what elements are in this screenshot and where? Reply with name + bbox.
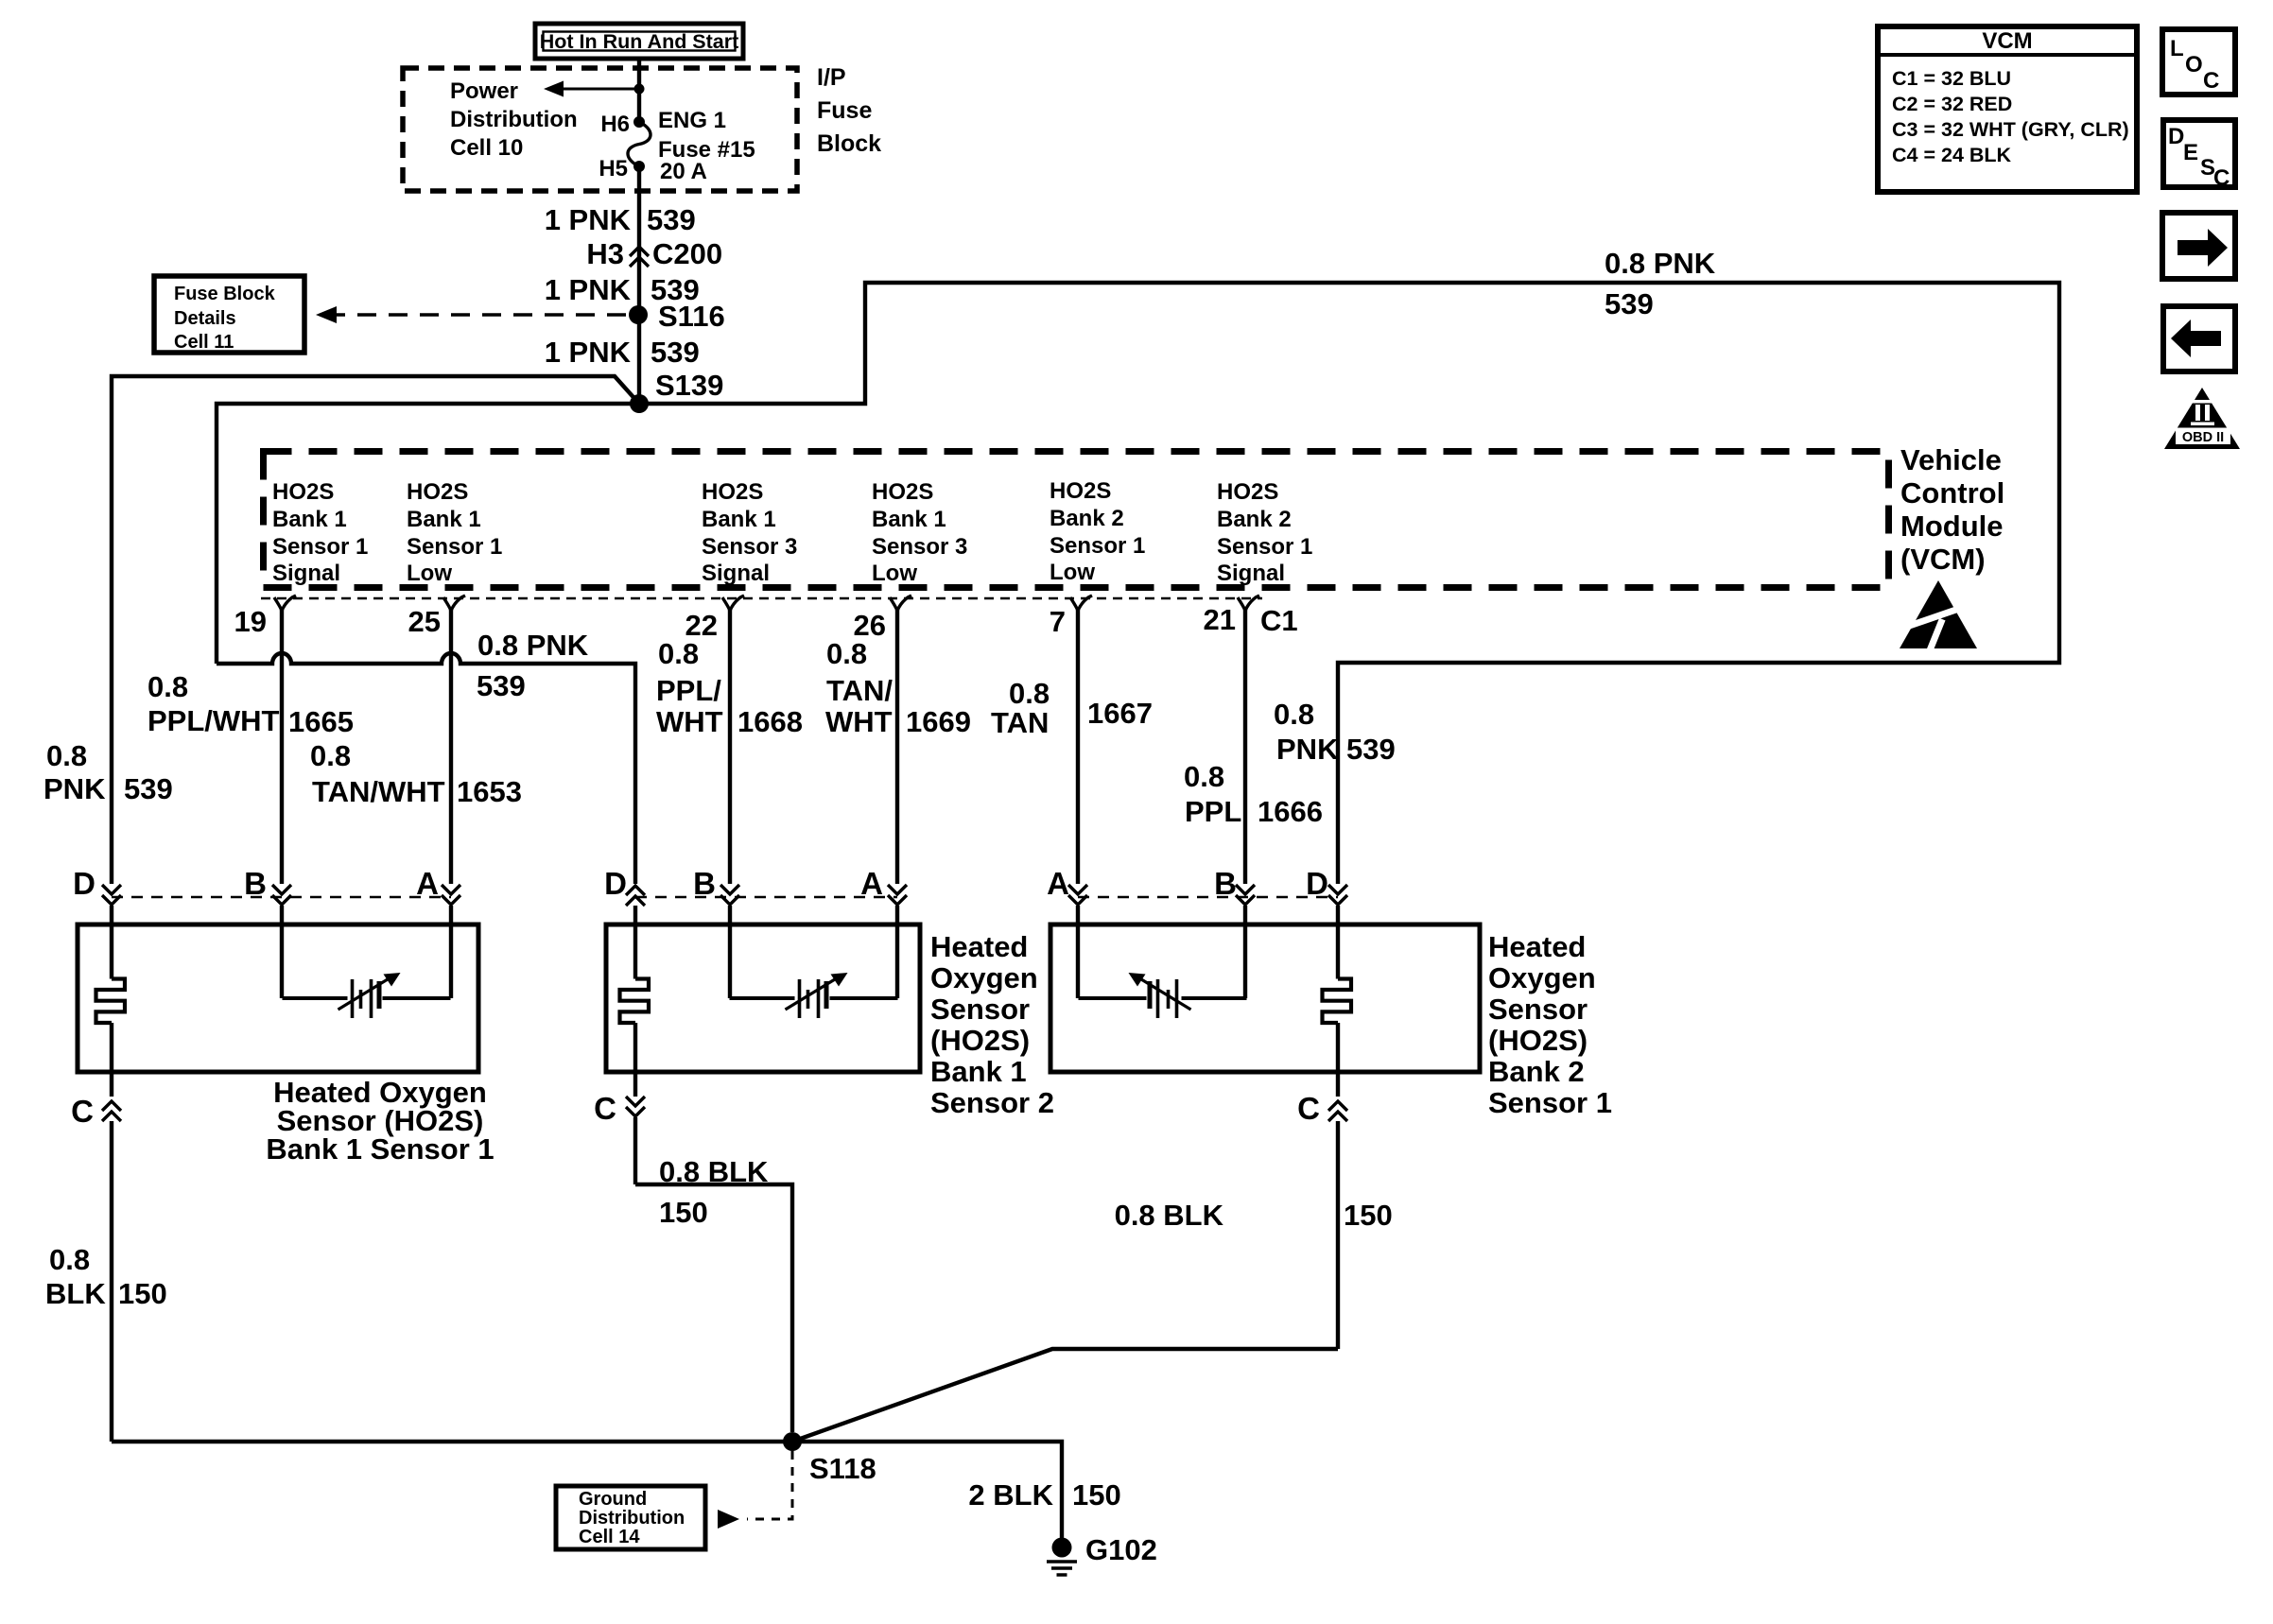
svg-text:1665: 1665 [288,705,354,738]
sense element sensor 3 [1076,906,1080,998]
heated oxygen sensor box 2 (Bank 1 Sensor 2) [606,924,920,1072]
wire: S139 to left branch (0.8 PNK to HO2S B1S1 heater) [112,376,639,884]
svg-text:Module: Module [1900,510,2004,543]
svg-text:HO2S: HO2S [1217,479,1278,505]
sensor 3 connector letters and arrows [1047,866,1347,905]
svg-text:TAN: TAN [991,706,1049,739]
wire: dashed reference to fuse block details [333,313,626,317]
svg-text:S118: S118 [809,1452,876,1485]
svg-text:Sensor 1: Sensor 1 [1217,534,1312,560]
svg-text:C: C [594,1091,616,1126]
svg-text:19: 19 [234,605,267,638]
svg-text:21: 21 [1204,603,1236,636]
svg-text:PPL/WHT: PPL/WHT [147,704,280,737]
svg-text:HO2S: HO2S [407,479,468,505]
svg-text:Bank 2: Bank 2 [1488,1055,1585,1088]
svg-text:Bank 1: Bank 1 [407,507,481,532]
svg-text:Bank 2: Bank 2 [1050,506,1124,531]
wire: S139 to middle branch [217,404,639,664]
svg-text:O: O [2185,52,2203,78]
svg-text:G102: G102 [1085,1533,1157,1566]
I/P fuse block dashed box [403,68,797,191]
node S118 [783,1432,802,1451]
svg-text:25: 25 [408,605,441,638]
svg-text:Hot In Run And Start: Hot In Run And Start [540,30,739,53]
svg-text:Distribution: Distribution [579,1508,685,1529]
svg-text:D: D [73,866,95,901]
svg-text:Ground: Ground [579,1489,647,1510]
svg-text:Cell 14: Cell 14 [579,1527,640,1547]
wire: ground bus [112,1442,1062,1539]
icon: LOC box [2162,29,2235,95]
heated oxygen sensor box 1 (Bank 1 Sensor 1) [78,924,478,1072]
label: Heated Oxygen Sensor (HO2S) Bank 2 Sensor 1 [1488,930,1612,1119]
sensor 1 connector letters and arrows [73,866,460,905]
svg-text:HO2S: HO2S [1050,478,1111,504]
heated oxygen sensor box 3 (Bank 2 Sensor 1) [1050,924,1480,1072]
svg-text:D: D [604,866,627,901]
svg-text:0.8: 0.8 [1274,698,1314,731]
pin 25 [408,596,465,884]
svg-text:1668: 1668 [737,705,803,738]
svg-text:Cell 11: Cell 11 [174,332,234,353]
label: I/P Fuse Block [817,64,881,157]
sensor 2 connector letters and arrows [604,866,907,906]
wire: arrow to power distribution [560,88,639,91]
svg-text:Fuse: Fuse [817,97,872,124]
svg-text:Sensor 2: Sensor 2 [930,1086,1054,1119]
fuse ENG 1 Fuse #15 20 A (H6/H5) [599,108,755,184]
svg-text:1 PNK: 1 PNK [545,273,632,306]
svg-text:150: 150 [1344,1199,1393,1232]
svg-text:20 A: 20 A [660,159,707,184]
svg-text:Bank 1: Bank 1 [872,507,946,532]
svg-text:539: 539 [1605,287,1654,320]
pin 22 [685,596,744,884]
svg-text:PPL/: PPL/ [656,674,721,707]
svg-text:Sensor: Sensor [1488,993,1588,1026]
svg-text:Details: Details [174,308,236,329]
svg-text:Bank 1: Bank 1 [702,507,776,532]
svg-text:1653: 1653 [457,775,522,808]
ground G102 [1047,1533,1157,1575]
svg-text:1 PNK: 1 PNK [545,336,632,369]
connector H3 C200 [586,237,722,270]
svg-text:Low: Low [872,561,917,586]
svg-text:Sensor 1: Sensor 1 [407,534,502,560]
node: tap junction [634,84,645,95]
svg-text:Low: Low [1050,560,1095,585]
svg-text:Sensor 3: Sensor 3 [872,534,967,560]
ESD sensitivity symbol [1891,580,1987,652]
svg-text:0.8: 0.8 [49,1243,90,1276]
icon: DESC box [2163,120,2235,191]
pin 21 C1 [1204,596,1298,884]
heater element sensor 2 [633,906,637,979]
wire: 1 PNK 539 from fuse to S139 [637,166,641,404]
svg-text:OBD II: OBD II [2182,430,2224,445]
svg-text:(VCM): (VCM) [1900,543,1986,576]
icon: forward arrow box [2162,213,2235,279]
svg-text:Cell 10: Cell 10 [450,135,523,161]
svg-text:150: 150 [1072,1478,1121,1512]
heater element sensor 1 [110,906,113,979]
svg-text:VCM: VCM [1982,28,2032,54]
svg-text:C3 = 32 WHT (GRY, CLR): C3 = 32 WHT (GRY, CLR) [1892,118,2129,141]
svg-text:Bank 1 Sensor 1: Bank 1 Sensor 1 [266,1132,494,1166]
svg-text:Fuse Block: Fuse Block [174,284,276,304]
label box: Hot In Run And Start [535,24,743,59]
svg-text:(HO2S): (HO2S) [1488,1024,1588,1057]
svg-text:S116: S116 [658,300,725,333]
svg-text:TAN/: TAN/ [826,674,893,707]
svg-text:Sensor 3: Sensor 3 [702,534,797,560]
svg-text:HO2S: HO2S [272,479,334,505]
svg-text:D: D [2168,124,2184,149]
svg-text:539: 539 [647,203,696,236]
svg-text:H6: H6 [600,112,630,137]
svg-text:H5: H5 [599,156,628,181]
svg-text:Heated: Heated [930,930,1028,963]
heater element sensor 3 [1336,906,1340,979]
svg-text:L: L [2170,36,2184,61]
svg-text:Signal: Signal [1217,561,1285,586]
svg-text:PNK: PNK [1276,733,1339,766]
svg-text:Heated: Heated [1488,930,1586,963]
svg-text:Oxygen: Oxygen [1488,961,1596,994]
sense element sensor 1 [280,906,284,998]
svg-text:Bank 1: Bank 1 [930,1055,1027,1088]
svg-text:0.8 PNK: 0.8 PNK [477,629,589,662]
svg-text:A: A [1047,866,1069,901]
svg-text:C: C [2213,165,2230,191]
pin 26 [854,596,911,884]
svg-text:Distribution: Distribution [450,107,578,132]
sense element sensor 2 [728,906,732,998]
svg-text:Power: Power [450,78,518,104]
svg-text:C: C [71,1094,94,1129]
svg-text:B: B [244,866,267,901]
label: Vehicle Control Module (VCM) [1900,443,2004,576]
svg-text:C4 = 24 BLK: C4 = 24 BLK [1892,144,2012,166]
VCM dashed connector box [264,452,1889,588]
connector face thin dashed line [261,597,1262,600]
svg-text:0.8 BLK: 0.8 BLK [659,1155,769,1188]
svg-text:0.8 PNK: 0.8 PNK [1605,247,1716,280]
svg-text:C: C [2203,68,2219,94]
svg-text:Bank 1: Bank 1 [272,507,347,532]
wire: 0.8 PNK horizontal with hops to middle sensor D [217,653,635,884]
svg-text:150: 150 [659,1196,708,1229]
svg-text:0.8: 0.8 [826,637,867,670]
svg-text:A: A [860,866,883,901]
wire: hot feed into fuse block [637,59,641,122]
svg-text:PNK: PNK [43,772,106,805]
pin labels inside VCM connector [272,478,1312,586]
svg-text:H3: H3 [586,237,624,270]
svg-text:C1: C1 [1260,604,1298,637]
wire: S139 right to VCM area and down right side to HO2S B2S1 heater [639,283,2059,884]
label: Power Distribution Cell 10 [450,78,578,161]
dashed reference to ground distribution [747,1451,792,1519]
svg-text:0.8: 0.8 [310,739,351,772]
icon: back arrow box [2163,306,2235,371]
pin 19 [234,596,296,884]
svg-text:C2 = 32 RED: C2 = 32 RED [1892,93,2012,115]
svg-text:2 BLK: 2 BLK [968,1478,1053,1512]
svg-text:WHT: WHT [656,705,723,738]
svg-text:C: C [1297,1091,1320,1126]
svg-text:Oxygen: Oxygen [930,961,1038,994]
svg-text:0.8: 0.8 [1009,677,1050,710]
svg-text:1666: 1666 [1258,795,1323,828]
label box: Fuse Block Details Cell 11 [154,276,304,353]
svg-text:BLK: BLK [45,1277,106,1310]
svg-text:WHT: WHT [825,705,893,738]
svg-text:Block: Block [817,130,881,157]
svg-text:E: E [2183,140,2198,165]
svg-text:A: A [416,866,439,901]
label: Heated Oxygen Sensor (HO2S) Bank 1 Sensor 2 [930,930,1054,1119]
svg-text:Sensor 1: Sensor 1 [272,534,368,560]
svg-text:Low: Low [407,561,452,586]
svg-text:PPL: PPL [1185,795,1241,828]
svg-text:0.8: 0.8 [1184,760,1224,793]
svg-text:S139: S139 [655,369,723,402]
svg-text:I/P: I/P [817,64,846,91]
label: Heated Oxygen Sensor (HO2S) Bank 1 Sensor 1 [266,1076,494,1166]
svg-text:Signal: Signal [272,561,340,586]
svg-text:Sensor: Sensor [930,993,1030,1026]
svg-text:C1 = 32 BLU: C1 = 32 BLU [1892,67,2011,90]
svg-text:Sensor 1: Sensor 1 [1050,533,1145,559]
svg-text:0.8: 0.8 [147,670,188,703]
VCM legend box [1878,26,2137,192]
svg-text:TAN/WHT: TAN/WHT [312,775,445,808]
svg-text:Bank 2: Bank 2 [1217,507,1292,532]
node S116 [629,305,648,324]
svg-text:0.8: 0.8 [46,739,87,772]
svg-text:0.8 BLK: 0.8 BLK [1115,1199,1224,1232]
svg-text:Signal: Signal [702,561,770,586]
svg-text:HO2S: HO2S [872,479,933,505]
svg-text:C200: C200 [652,237,722,270]
svg-text:B: B [693,866,716,901]
label box: Ground Distribution Cell 14 [556,1486,705,1549]
icon: OBD II triangle [2164,388,2240,449]
svg-text:ENG 1: ENG 1 [658,108,726,133]
svg-text:1669: 1669 [906,705,971,738]
svg-text:Vehicle: Vehicle [1900,443,2002,476]
svg-text:HO2S: HO2S [702,479,763,505]
svg-text:539: 539 [1346,733,1396,766]
wire: diagonal from S118 to sensor 3 ground [792,1349,1338,1442]
pin 7 [1050,596,1092,884]
svg-text:(HO2S): (HO2S) [930,1024,1030,1057]
svg-text:1667: 1667 [1087,697,1153,730]
svg-text:0.8: 0.8 [658,637,699,670]
svg-text:D: D [1306,866,1328,901]
svg-text:7: 7 [1050,605,1066,638]
svg-text:B: B [1214,866,1237,901]
svg-text:539: 539 [651,336,700,369]
svg-text:Control: Control [1900,476,2004,510]
svg-text:1 PNK: 1 PNK [545,203,632,236]
svg-text:539: 539 [477,669,526,702]
svg-text:150: 150 [118,1277,167,1310]
wire: sensor 2 ground lead [635,1184,792,1432]
svg-text:539: 539 [124,772,173,805]
svg-text:Sensor 1: Sensor 1 [1488,1086,1612,1119]
